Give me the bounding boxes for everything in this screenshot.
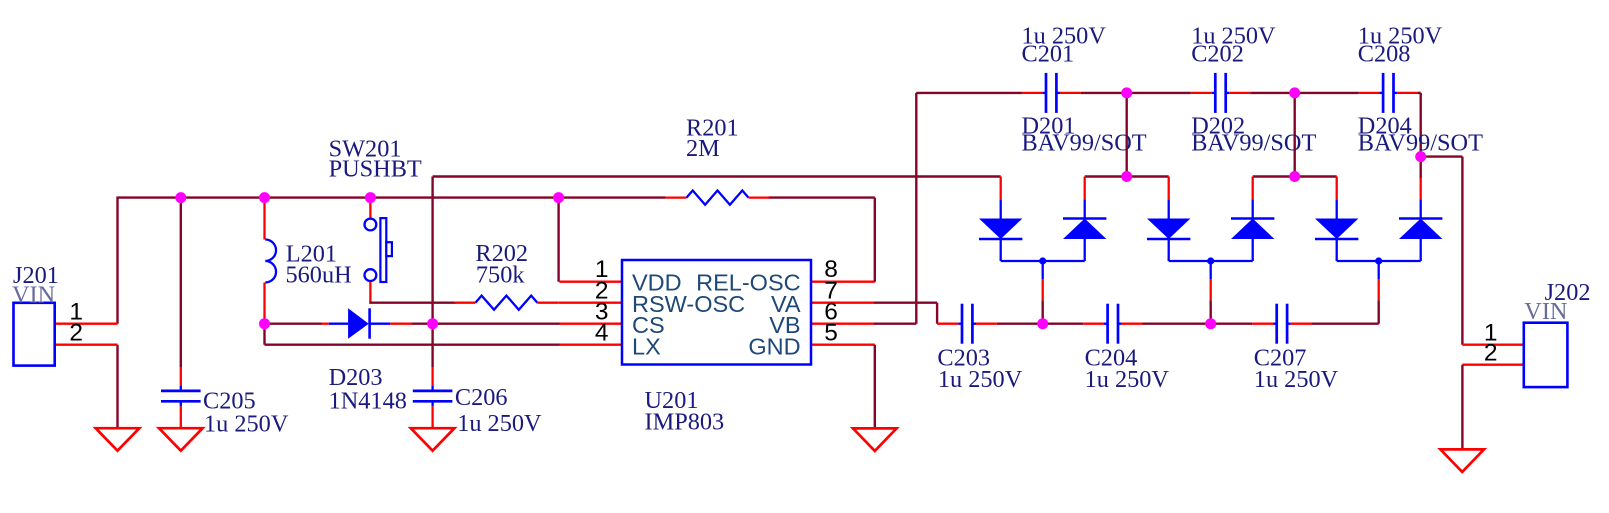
svg-text:BAV99/SOT: BAV99/SOT [1022, 129, 1147, 156]
svg-text:1u 250V: 1u 250V [1085, 366, 1170, 393]
svg-text:1u 250V: 1u 250V [1254, 366, 1339, 393]
svg-text:C201: C201 [1022, 40, 1075, 67]
svg-text:2M: 2M [686, 135, 720, 162]
svg-text:C206: C206 [455, 384, 508, 411]
svg-text:C202: C202 [1191, 40, 1244, 67]
svg-text:560uH: 560uH [286, 262, 352, 289]
svg-text:5: 5 [824, 320, 838, 347]
svg-text:BAV99/SOT: BAV99/SOT [1191, 129, 1316, 156]
svg-text:1u 250V: 1u 250V [457, 410, 542, 437]
svg-text:C208: C208 [1358, 40, 1411, 67]
svg-text:VIN: VIN [12, 282, 55, 309]
svg-text:1u 250V: 1u 250V [204, 411, 289, 438]
svg-text:BAV99/SOT: BAV99/SOT [1358, 129, 1483, 156]
svg-text:PUSHBT: PUSHBT [329, 156, 422, 183]
svg-text:1N4148: 1N4148 [329, 387, 407, 414]
svg-text:GND: GND [748, 334, 800, 360]
svg-text:LX: LX [632, 334, 661, 360]
svg-text:2: 2 [69, 320, 83, 347]
svg-text:4: 4 [595, 320, 609, 347]
svg-text:2: 2 [1484, 340, 1498, 367]
svg-text:750k: 750k [476, 262, 525, 289]
svg-text:IMP803: IMP803 [645, 409, 725, 436]
svg-text:VIN: VIN [1524, 298, 1567, 325]
svg-text:1u 250V: 1u 250V [938, 366, 1023, 393]
